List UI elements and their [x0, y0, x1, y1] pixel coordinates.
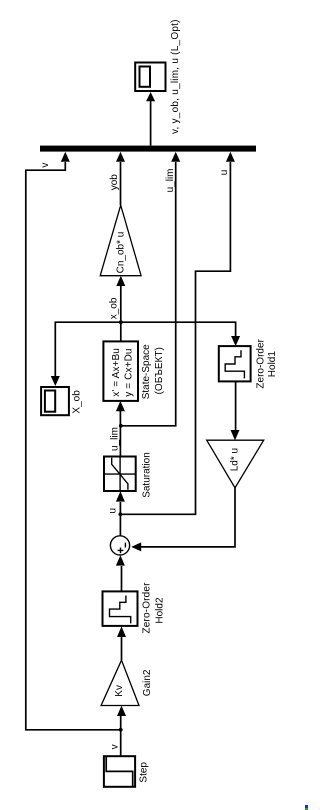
arrowhead into Mux input u — [226, 152, 235, 162]
svg-text:Zero-Order: Zero-Order — [255, 338, 266, 388]
scope X_ob — [41, 387, 69, 415]
gain Ld triangle pointing down — [207, 440, 264, 488]
wire Ld gain to Sum — [141, 488, 235, 547]
icon staircase ZOH1 — [225, 350, 244, 378]
label Saturation — [142, 452, 153, 498]
svg-text:Hold2: Hold2 — [155, 597, 166, 624]
label Gain2 — [142, 669, 153, 696]
svg-text:u: u — [219, 170, 230, 176]
wire branch u_lim: junction right and up to Mux — [121, 162, 176, 426]
svg-text:v: v — [109, 744, 120, 749]
label x' = Ax+Bu — [111, 348, 122, 397]
label plus sign — [118, 548, 124, 554]
label v near step — [109, 744, 120, 749]
svg-text:Saturation: Saturation — [142, 452, 153, 498]
node junction u — [119, 512, 123, 516]
wire Mux to Scope — [150, 101, 152, 146]
node junction x_ob — [119, 320, 123, 324]
arrowhead into Mux input v — [61, 152, 70, 162]
svg-text:Step: Step — [139, 762, 150, 783]
svg-text:X_ob: X_ob — [72, 390, 83, 414]
wire Zero-Order Hold2 to Sum — [121, 566, 123, 591]
sum block — [110, 536, 129, 555]
scope block v,y_ob,u_lim,u — [135, 63, 165, 92]
icon saturation curve — [104, 457, 136, 492]
label v at mux input — [40, 163, 51, 168]
svg-text:u: u — [107, 508, 118, 514]
label Step — [139, 762, 150, 783]
label yob at mux input — [109, 174, 120, 191]
svg-text:Zero-Order: Zero-Order — [141, 582, 152, 634]
label X_ob — [72, 390, 83, 414]
label State-Space — [141, 344, 152, 399]
label Ld* u — [230, 448, 241, 471]
label x_ob at state-space output — [109, 297, 120, 319]
arrowhead into Mux input u_lim — [171, 152, 180, 162]
svg-text:v: v — [40, 163, 51, 168]
svg-text:v, y_ob, u_lim, u (L_Opt): v, y_ob, u_lim, u (L_Opt) — [170, 19, 181, 134]
svg-text:u_lim: u_lim — [165, 168, 176, 192]
wire Saturation to State-Space — [119, 411, 121, 457]
svg-text:Hold1: Hold1 — [267, 351, 278, 378]
label Hold2 — [155, 597, 166, 624]
wire Gain2 to Zero-Order Hold2 — [121, 637, 123, 660]
arrowhead into Gain2 — [117, 706, 126, 716]
corner artifact pixels — [305, 805, 308, 808]
label (OBJEKT) — [154, 347, 165, 394]
arrowhead into Ld gain pointing down — [231, 430, 240, 440]
block Zero-Order Hold1 — [219, 346, 251, 381]
block Saturation — [104, 457, 136, 492]
arrowhead into Mux input yob — [116, 152, 125, 162]
arrowhead into Scope — [146, 92, 155, 101]
label Kv — [114, 685, 125, 697]
wire Cn_ob gain to Mux — [120, 162, 122, 205]
svg-text:x' = Ax+Bu: x' = Ax+Bu — [111, 348, 122, 397]
arrowhead into Cn_ob gain — [116, 276, 125, 286]
gain Gain2 Kv triangle — [101, 660, 139, 705]
label Zero-Order line of Hold2 — [141, 582, 152, 634]
mux Mux1 — [40, 146, 256, 152]
svg-text:yob: yob — [109, 174, 120, 191]
arrowhead into X_ob scope pointing down — [51, 376, 60, 386]
wire branch v: junction to left edge up to Mux — [26, 162, 121, 730]
label y = Cx+Du — [123, 348, 134, 396]
label u_lim at mux input — [165, 168, 176, 192]
wire Sum to Saturation — [119, 502, 121, 536]
arrowhead into State-Space — [116, 401, 125, 411]
icon step curve — [106, 757, 133, 786]
wire State-Space to Cn_ob gain — [120, 286, 122, 341]
label u at mux input — [219, 170, 230, 176]
block State-Space — [103, 341, 138, 401]
arrowhead into Sum pointing left — [131, 542, 141, 551]
wire branch x_ob to X_ob scope — [55, 322, 121, 377]
arrowhead into Zero-Order Hold1 pointing down — [231, 336, 240, 346]
gain Cn_ob triangle — [100, 205, 141, 276]
icon staircase ZOH2 — [110, 596, 131, 624]
svg-text:(ОБЪЕКТ): (ОБЪЕКТ) — [154, 347, 165, 394]
block Step — [104, 756, 135, 787]
svg-text:Gain2: Gain2 — [142, 669, 153, 696]
svg-text:Ld* u: Ld* u — [230, 448, 241, 471]
node junction u_lim — [119, 424, 123, 428]
svg-text:Cn_ob* u: Cn_ob* u — [115, 232, 126, 274]
label scope (L_Opt) — [170, 19, 181, 134]
arrowhead into Zero-Order Hold2 — [117, 626, 126, 637]
wire Zero-Order Hold1 to Ld gain — [235, 381, 237, 430]
svg-text:State-Space: State-Space — [141, 344, 152, 399]
label u at sum output — [107, 508, 118, 514]
label minus sign — [124, 543, 126, 548]
label Zero-Order line of Hold1 — [255, 338, 266, 388]
arrowhead into Saturation — [116, 491, 125, 501]
svg-text:y = Cx+Du: y = Cx+Du — [123, 348, 134, 396]
svg-text:x_ob: x_ob — [109, 297, 120, 319]
node junction at Step output — [119, 728, 123, 732]
wire Step to Gain2 — [120, 716, 122, 756]
svg-text:u_lim: u_lim — [110, 427, 121, 451]
arrowhead into Sum from below — [116, 555, 125, 565]
label Cn_ob* u — [115, 232, 126, 274]
wire branch u: junction right and up to Mux — [120, 162, 230, 514]
svg-text:Kv: Kv — [114, 685, 125, 697]
label u_lim at saturation output — [110, 427, 121, 451]
block Zero-Order Hold2 — [103, 591, 138, 626]
wire branch x_ob to Zero-Order Hold1 — [121, 322, 236, 337]
label Hold1 — [267, 351, 278, 378]
